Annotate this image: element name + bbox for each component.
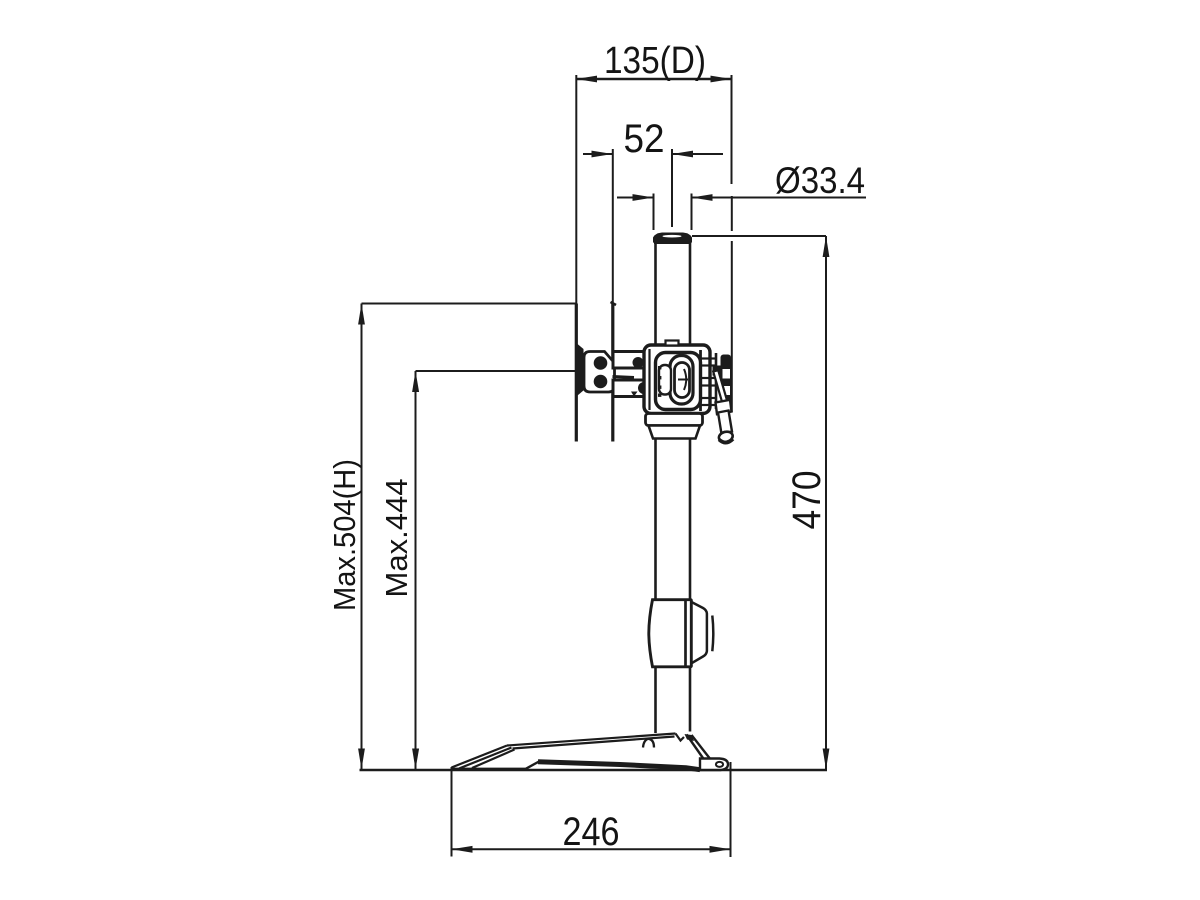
rear strut line 2: [692, 735, 712, 760]
base top edge lower line: [513, 737, 675, 749]
pole right edge extension: [691, 194, 693, 231]
head left dots: [658, 366, 661, 397]
dimension Max.504(H) line: [361, 304, 363, 770]
head oval column: [670, 356, 693, 405]
arrow 52 left: [592, 151, 613, 158]
arrow 470 top: [823, 236, 830, 257]
base left wedge middle slant: [459, 748, 512, 769]
arrow 470 bottom: [823, 749, 830, 770]
dimension 246 left extension: [451, 767, 453, 857]
rear strut line 1: [687, 735, 705, 760]
dimension 470 line: [825, 236, 827, 770]
dimension Ø33.4 left tail: [617, 197, 654, 199]
dimension 246 right extension: [730, 762, 732, 857]
pole top collar highlight: [663, 235, 682, 238]
arm lower link end cap: [638, 382, 650, 394]
pole mid tube right edge: [689, 439, 692, 600]
base bottom thick band: [538, 762, 700, 770]
dimension 52 right tail: [672, 153, 723, 155]
far right mount plate dark: [721, 355, 732, 411]
svg-text:Ø33.4: Ø33.4: [775, 160, 865, 201]
pole left edge extension: [653, 194, 655, 231]
handle pivot block: [713, 366, 721, 376]
head top tab: [666, 341, 679, 346]
handle knob dark rim: [719, 439, 733, 443]
arrow 135 left: [576, 76, 597, 83]
cable clip bump outer face: [712, 616, 713, 652]
handle upper rod: [713, 370, 728, 406]
arm lower tick: [631, 392, 638, 397]
bracket screw hole lower: [594, 375, 608, 389]
base top edge upper line: [507, 734, 676, 746]
head inner face plate: [656, 353, 701, 410]
svg-text:Max.504(H): Max.504(H): [327, 459, 362, 611]
dimension Ø33.4 right tail: [692, 197, 867, 199]
head right rail right edge: [715, 353, 718, 409]
base left wedge inner slant: [472, 750, 515, 769]
arrow Max504 top: [358, 304, 365, 325]
dimension 52 left tail: [583, 153, 613, 155]
base bottom thin edge: [452, 768, 526, 770]
head left tab: [659, 365, 671, 395]
arrow 246 left: [452, 846, 473, 853]
dimension Max.444 top connector: [416, 370, 577, 372]
head inner oval: [675, 363, 690, 398]
head center tick: [678, 379, 688, 381]
pole lower tube right edge: [689, 667, 692, 732]
pole base hump: [643, 739, 654, 748]
arrow 52 right: [672, 151, 693, 158]
base bottom step: [526, 762, 539, 769]
arrow diameter left: [633, 194, 654, 201]
vesa bracket block: [584, 352, 615, 393]
head lower flange: [646, 414, 703, 426]
ground line: [360, 769, 828, 771]
dimension 135(D) line: [576, 78, 732, 80]
arrow 246 right: [710, 846, 731, 853]
pole upper tube right edge: [689, 243, 692, 345]
monitor plate front face: [575, 304, 578, 442]
svg-text:52: 52: [624, 117, 665, 161]
base left wedge outer slant: [452, 746, 508, 768]
dimension Max.444 line: [415, 371, 417, 770]
dimension 52 right extension (pole axis): [671, 149, 673, 227]
arm upper link: [613, 352, 645, 369]
plate top tick: [611, 302, 617, 305]
dimension 52 left extension: [612, 149, 614, 304]
pole top connector line to 470: [692, 235, 826, 237]
head lower ring: [649, 426, 701, 439]
mount plate slot 1: [723, 369, 731, 379]
base right notch: [676, 734, 685, 741]
pole upper tube left edge: [654, 243, 657, 345]
svg-text:Max.444: Max.444: [379, 479, 414, 598]
pole lower tube left edge: [654, 667, 657, 734]
svg-text:135(D): 135(D): [604, 40, 706, 82]
arm upper link end cap: [633, 357, 644, 368]
rail rung 2: [701, 377, 717, 379]
pole top collar dark lens: [653, 233, 692, 243]
arrow Max444 bottom: [412, 749, 419, 770]
svg-text:246: 246: [563, 810, 620, 854]
arm lower link: [613, 380, 648, 397]
handle collar: [716, 400, 732, 414]
dimension 135(D) right extension solid: [731, 75, 733, 184]
pole collar bottom line: [654, 242, 691, 244]
rear foot pad: [700, 759, 728, 771]
pole mid tube left edge: [654, 439, 657, 600]
head housing left inner line: [648, 349, 650, 410]
rail rung 3: [701, 397, 717, 399]
head right rail left edge: [699, 350, 702, 411]
arrow Max444 top: [412, 371, 419, 392]
handle lower rod: [718, 411, 732, 434]
rail rung 1: [701, 357, 717, 359]
mount plate slot 2: [723, 386, 731, 395]
monitor plate back face: [611, 304, 614, 442]
rear strut junction dark: [685, 734, 695, 741]
bracket screw hole upper: [594, 356, 608, 370]
dimension Max.504(H) top connector: [362, 303, 577, 305]
svg-text:470: 470: [785, 471, 829, 530]
head outer housing: [644, 345, 710, 414]
arrow Max504 bottom: [358, 749, 365, 770]
plate center dark wedge: [578, 344, 585, 396]
dimension 135(D) right extension dashed centerline: [731, 196, 733, 231]
cable clip body: [649, 600, 692, 667]
dimension 135(D) left extension: [575, 75, 577, 304]
dimension 246 line: [452, 848, 731, 850]
cable clip bump: [691, 602, 707, 664]
arrow 135 right: [711, 76, 732, 83]
head inner arc detail: [684, 369, 686, 390]
arrow diameter right: [692, 194, 713, 201]
arm middle bar: [613, 377, 635, 378]
handle knob: [718, 430, 734, 443]
rear foot inner detail: [716, 762, 723, 767]
cable clip right inner vertical: [684, 601, 687, 666]
